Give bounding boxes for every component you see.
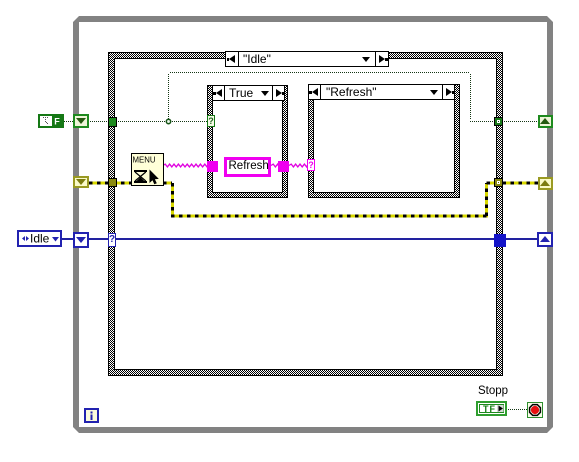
svg-text:F: F <box>54 117 60 127</box>
svg-text:TF: TF <box>483 404 496 414</box>
svg-text:MENU: MENU <box>133 155 156 165</box>
svg-text:Idle: Idle <box>30 232 50 245</box>
